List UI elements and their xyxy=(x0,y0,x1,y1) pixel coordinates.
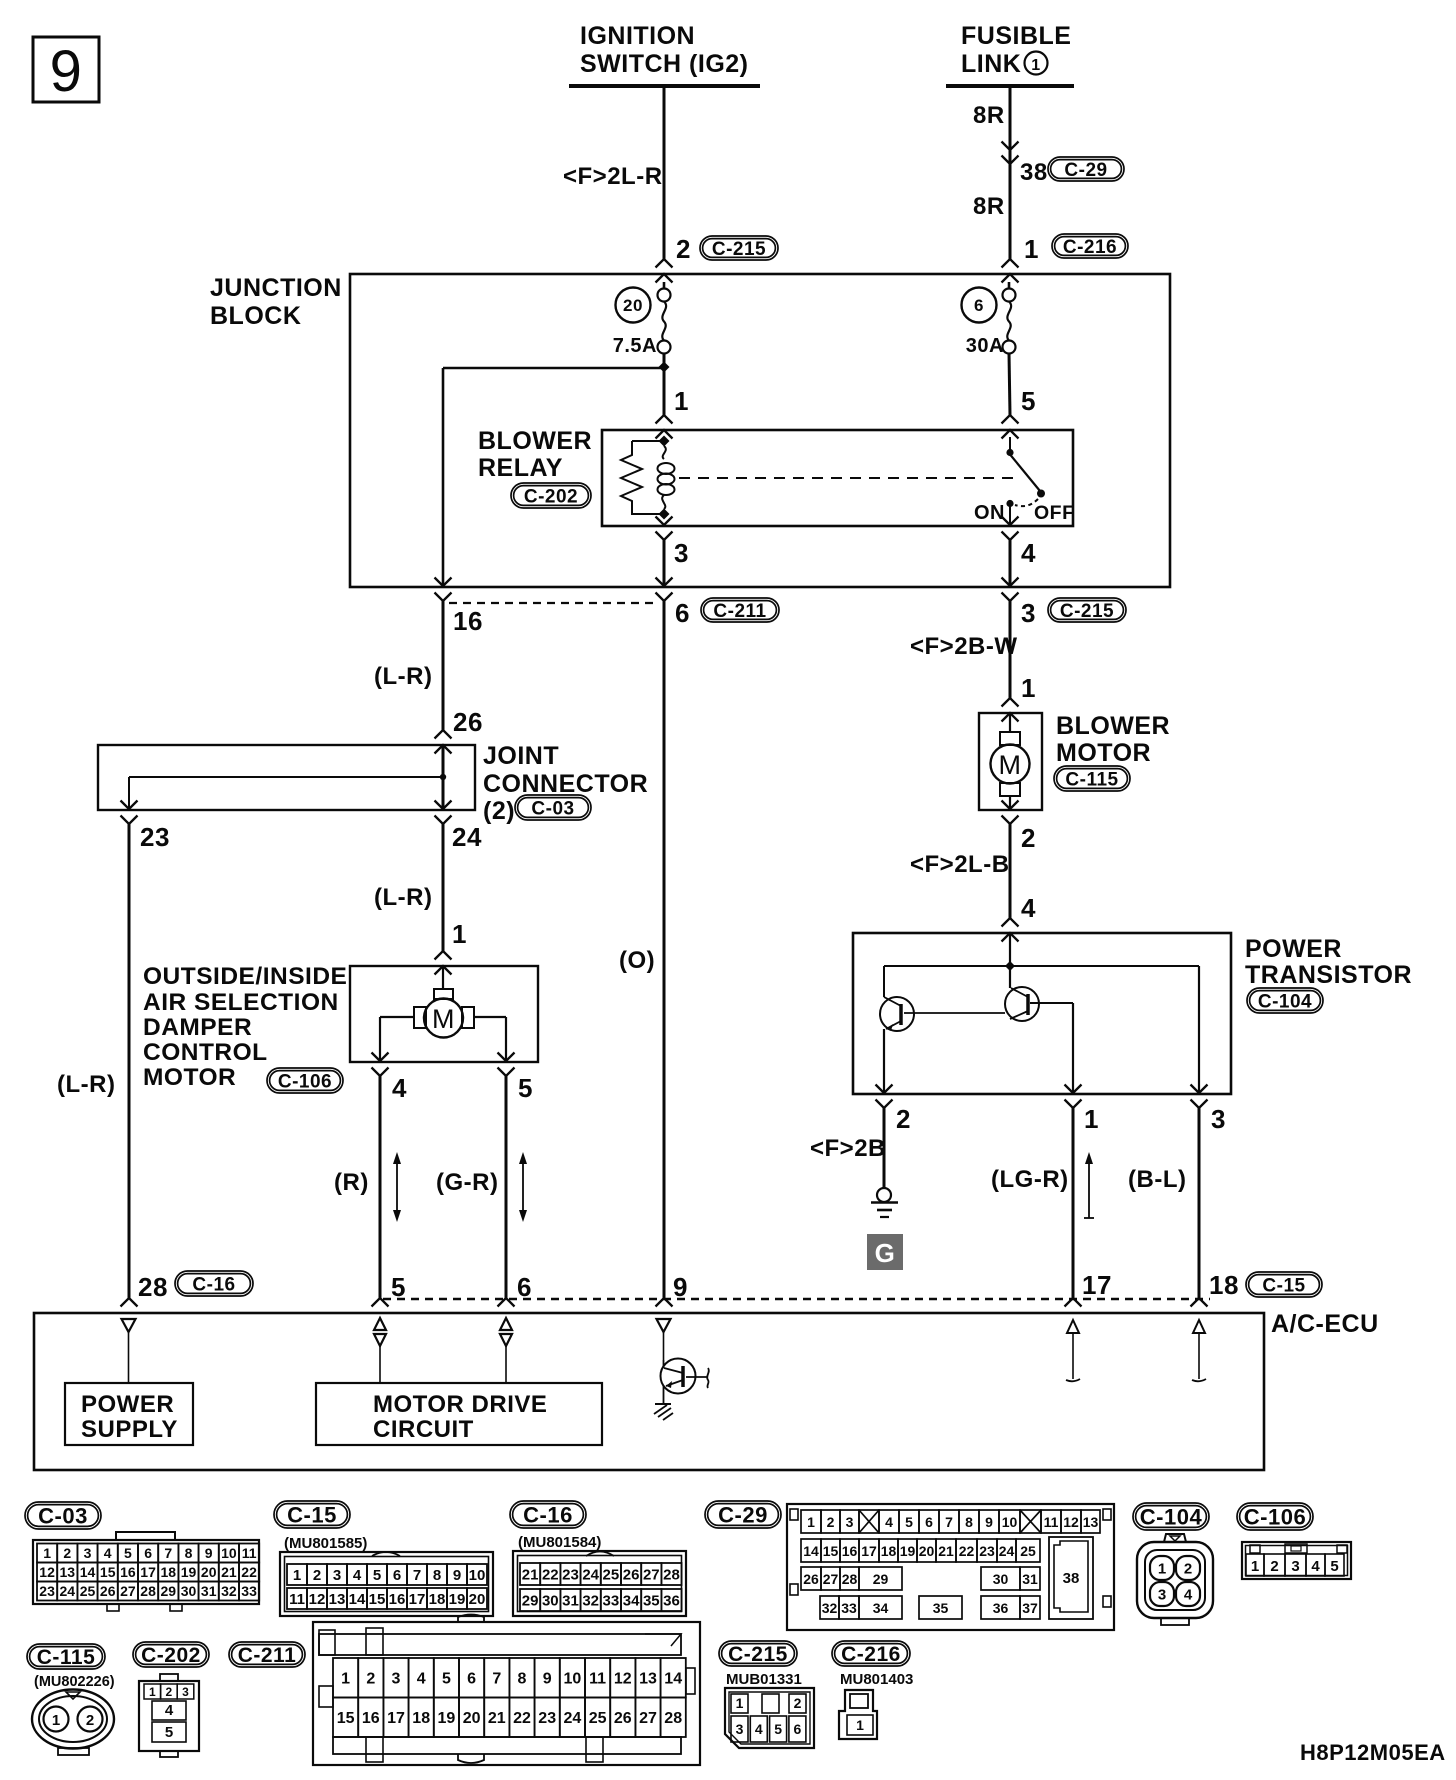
svg-text:TRANSISTOR: TRANSISTOR xyxy=(1245,961,1412,989)
svg-text:12: 12 xyxy=(309,1591,326,1608)
svg-text:5: 5 xyxy=(165,1724,173,1741)
MOTOR DRIVE CIRCUIT block xyxy=(316,1383,602,1445)
ECU input triangle pin 9 xyxy=(657,1319,671,1360)
legend connector C-03 label xyxy=(25,1502,101,1529)
svg-text:5: 5 xyxy=(373,1567,381,1584)
ECU internal transistor Q3 xyxy=(661,1359,709,1405)
fuse 6 30A xyxy=(962,282,1016,357)
svg-text:23: 23 xyxy=(39,1583,55,1599)
wire damper pin 4 to ECU pin 5, code (R) xyxy=(334,1076,380,1298)
svg-text:(LG-R): (LG-R) xyxy=(991,1166,1069,1193)
svg-text:21: 21 xyxy=(938,1543,954,1559)
svg-text:MOTOR DRIVE: MOTOR DRIVE xyxy=(373,1391,547,1418)
svg-text:C-115: C-115 xyxy=(37,1646,96,1669)
terminal ECU pin 17 xyxy=(1065,1298,1082,1307)
svg-text:C-215: C-215 xyxy=(712,239,766,260)
svg-text:9: 9 xyxy=(453,1567,461,1584)
legend connector C-106 pin grid xyxy=(1242,1542,1351,1579)
svg-text:19: 19 xyxy=(181,1564,197,1580)
svg-text:24: 24 xyxy=(60,1583,76,1599)
svg-text:29: 29 xyxy=(522,1592,539,1609)
svg-text:1: 1 xyxy=(293,1567,301,1584)
legend connector C-106 label xyxy=(1237,1503,1313,1530)
svg-text:1: 1 xyxy=(149,1685,156,1699)
legend connector C-211 label xyxy=(229,1642,305,1667)
svg-text:36: 36 xyxy=(993,1600,1009,1616)
connector C-211 pin 6 label xyxy=(675,598,779,628)
svg-text:M: M xyxy=(999,750,1022,780)
svg-text:16: 16 xyxy=(120,1564,136,1580)
svg-text:33: 33 xyxy=(241,1583,257,1599)
svg-text:14: 14 xyxy=(803,1543,819,1559)
svg-text:37: 37 xyxy=(1022,1600,1038,1616)
svg-text:18: 18 xyxy=(161,1564,177,1580)
svg-text:14: 14 xyxy=(349,1591,366,1608)
connector C-215 pin 3 label xyxy=(1021,598,1126,628)
legend connector C-15 pin grid xyxy=(280,1552,493,1616)
legend connector C-15 label xyxy=(274,1501,367,1552)
svg-text:5: 5 xyxy=(774,1721,782,1737)
ECU bidirectional triangles pin 6 xyxy=(500,1318,512,1383)
svg-text:13: 13 xyxy=(1083,1514,1099,1530)
transistor Q1 output xyxy=(880,997,1005,1031)
legend connector C-29 pin grid xyxy=(787,1504,1114,1630)
terminal blower motor pin 1 xyxy=(1002,698,1019,722)
svg-text:2: 2 xyxy=(313,1567,321,1584)
svg-text:G: G xyxy=(875,1238,896,1268)
connector C-215 pin 2 label xyxy=(676,234,778,264)
svg-text:2: 2 xyxy=(1270,1558,1278,1575)
svg-text:2: 2 xyxy=(86,1712,94,1729)
svg-text:4: 4 xyxy=(885,1514,893,1530)
svg-text:3: 3 xyxy=(674,538,689,568)
terminal power transistor pin 3 xyxy=(1191,1085,1208,1109)
terminal relay pin 4 xyxy=(1002,517,1019,541)
terminal ECU pin 9 xyxy=(656,1298,673,1307)
svg-text:4: 4 xyxy=(417,1671,426,1688)
svg-text:31: 31 xyxy=(201,1583,217,1599)
svg-text:3: 3 xyxy=(846,1514,854,1530)
terminal junction block pin 16 exit xyxy=(435,578,452,602)
terminal ECU pin 18 xyxy=(1191,1298,1208,1307)
svg-text:7: 7 xyxy=(492,1671,501,1688)
svg-text:POWER: POWER xyxy=(1245,935,1342,963)
terminal power transistor pin 4 xyxy=(1002,918,1019,942)
terminal joint connector pin 23 xyxy=(121,801,138,825)
svg-text:1: 1 xyxy=(52,1712,60,1729)
svg-text:1: 1 xyxy=(736,1695,744,1711)
svg-text:26: 26 xyxy=(100,1583,116,1599)
svg-text:17: 17 xyxy=(1082,1270,1112,1300)
terminal pin 1 into junction block xyxy=(1002,259,1019,283)
svg-text:17: 17 xyxy=(140,1564,156,1580)
svg-text:JUNCTION: JUNCTION xyxy=(210,274,342,302)
svg-text:5: 5 xyxy=(1330,1558,1338,1575)
svg-text:28: 28 xyxy=(664,1710,682,1727)
svg-text:21: 21 xyxy=(221,1564,237,1580)
svg-text:1: 1 xyxy=(341,1671,350,1688)
svg-text:1: 1 xyxy=(43,1545,51,1561)
svg-text:16: 16 xyxy=(842,1543,858,1559)
svg-text:11: 11 xyxy=(242,1545,257,1561)
fuse 20 7.5A xyxy=(613,282,671,357)
svg-text:30A: 30A xyxy=(966,335,1004,357)
svg-text:SUPPLY: SUPPLY xyxy=(81,1416,178,1443)
svg-text:27: 27 xyxy=(120,1583,136,1599)
svg-text:5: 5 xyxy=(442,1671,451,1688)
svg-text:30: 30 xyxy=(993,1571,1009,1587)
legend connector C-29 label xyxy=(705,1501,781,1528)
svg-text:3: 3 xyxy=(1158,1587,1166,1604)
svg-text:1: 1 xyxy=(1024,234,1039,264)
relay BLOWER RELAY C-202 box xyxy=(478,427,1073,526)
svg-text:C-202: C-202 xyxy=(141,1644,201,1667)
svg-text:24: 24 xyxy=(452,822,482,852)
svg-text:4: 4 xyxy=(392,1073,407,1103)
svg-text:20: 20 xyxy=(463,1710,481,1727)
legend connector C-115 label xyxy=(27,1644,115,1690)
legend connector C-216 face xyxy=(839,1690,877,1739)
svg-text:C-16: C-16 xyxy=(192,1274,235,1295)
svg-text:14: 14 xyxy=(80,1564,96,1580)
svg-text:1: 1 xyxy=(856,1717,864,1733)
legend connector C-104 label xyxy=(1133,1503,1209,1530)
svg-text:23: 23 xyxy=(562,1566,579,1583)
svg-text:4: 4 xyxy=(353,1567,362,1584)
svg-text:(MU802226): (MU802226) xyxy=(34,1674,115,1690)
svg-text:3: 3 xyxy=(84,1545,92,1561)
svg-text:6: 6 xyxy=(675,598,690,628)
svg-text:25: 25 xyxy=(1020,1543,1036,1559)
svg-text:ON: ON xyxy=(974,502,1005,524)
wire fuse6 to relay switch pin 5 xyxy=(1009,353,1010,415)
svg-text:4: 4 xyxy=(1311,1558,1320,1575)
svg-text:31: 31 xyxy=(1022,1571,1038,1587)
svg-text:C-03: C-03 xyxy=(38,1503,88,1528)
svg-text:C-15: C-15 xyxy=(1262,1275,1305,1296)
legend connector C-216 label xyxy=(832,1641,913,1688)
node fuse20 output junction xyxy=(659,353,670,415)
svg-text:15: 15 xyxy=(100,1564,116,1580)
svg-text:2: 2 xyxy=(896,1104,911,1134)
svg-text:C-106: C-106 xyxy=(1244,1504,1306,1529)
svg-text:28: 28 xyxy=(663,1566,680,1583)
svg-text:32: 32 xyxy=(582,1592,599,1609)
svg-text:(L-R): (L-R) xyxy=(57,1071,115,1098)
svg-text:2: 2 xyxy=(827,1514,835,1530)
svg-text:19: 19 xyxy=(438,1710,456,1727)
terminal ECU pin 28 xyxy=(121,1298,138,1307)
ECU bidirectional triangles pin 5 xyxy=(374,1318,386,1383)
connector C-216 pin 1 label xyxy=(1024,234,1128,264)
svg-text:21: 21 xyxy=(522,1566,539,1583)
svg-text:17: 17 xyxy=(409,1591,426,1608)
svg-text:9: 9 xyxy=(50,39,83,104)
svg-text:3: 3 xyxy=(1021,598,1036,628)
svg-text:<F>2L-R: <F>2L-R xyxy=(563,163,663,190)
ECU pin 18 label xyxy=(1209,1270,1322,1300)
svg-text:JOINT: JOINT xyxy=(483,742,559,770)
relay coil xyxy=(658,436,675,520)
svg-text:C-03: C-03 xyxy=(531,798,574,819)
svg-text:MUB01331: MUB01331 xyxy=(726,1671,802,1688)
svg-text:8: 8 xyxy=(518,1671,527,1688)
terminal ECU pin 5 xyxy=(372,1298,389,1307)
svg-text:26: 26 xyxy=(623,1566,640,1583)
svg-text:20: 20 xyxy=(623,296,643,315)
svg-text:25: 25 xyxy=(80,1583,96,1599)
wire pin 24 to damper motor pin 1, code (L-R) xyxy=(374,824,443,951)
svg-text:<F>2B-W: <F>2B-W xyxy=(910,633,1018,660)
svg-text:1: 1 xyxy=(1158,1561,1166,1578)
svg-text:2: 2 xyxy=(366,1671,375,1688)
svg-text:27: 27 xyxy=(823,1571,839,1587)
svg-text:8: 8 xyxy=(185,1545,193,1561)
damper motor M symbol xyxy=(414,966,474,1038)
legend connector C-211 face xyxy=(313,1615,700,1766)
terminal pin 2 into junction block xyxy=(656,259,673,283)
svg-text:(R): (R) xyxy=(334,1169,369,1196)
svg-text:C-29: C-29 xyxy=(718,1502,768,1527)
svg-text:4: 4 xyxy=(1184,1587,1193,1604)
svg-text:32: 32 xyxy=(822,1600,838,1616)
svg-text:28: 28 xyxy=(138,1272,168,1302)
svg-text:6: 6 xyxy=(974,296,984,315)
svg-text:25: 25 xyxy=(603,1566,620,1583)
svg-text:18: 18 xyxy=(429,1591,446,1608)
ground reference G box xyxy=(867,1234,903,1270)
terminal damper motor pin 1 xyxy=(435,951,452,975)
svg-text:7: 7 xyxy=(413,1567,421,1584)
svg-text:(B-L): (B-L) xyxy=(1128,1166,1186,1193)
terminal joint connector pin 26 xyxy=(435,730,452,754)
svg-text:8R: 8R xyxy=(973,102,1005,129)
wire damper motor left brush to pin 4 xyxy=(380,1017,414,1061)
terminal relay pin 5 xyxy=(1002,415,1019,439)
svg-text:C-29: C-29 xyxy=(1064,160,1107,181)
source IGNITION SWITCH (IG2) xyxy=(569,22,760,86)
svg-text:(O): (O) xyxy=(619,947,655,974)
svg-text:10: 10 xyxy=(1002,1514,1018,1530)
legend connector C-202 face xyxy=(139,1674,199,1757)
svg-text:8R: 8R xyxy=(973,193,1005,220)
svg-text:12: 12 xyxy=(39,1564,55,1580)
svg-text:(G-R): (G-R) xyxy=(436,1169,498,1196)
svg-text:9: 9 xyxy=(673,1272,688,1302)
svg-text:6: 6 xyxy=(925,1514,933,1530)
svg-text:CONTROL: CONTROL xyxy=(143,1039,268,1066)
connector C-29 pin 38 crossing xyxy=(1002,142,1125,187)
legend connector C-16 pin grid xyxy=(513,1551,686,1616)
source FUSIBLE LINK 1 xyxy=(946,22,1074,86)
transistor Q2 driver xyxy=(1005,987,1073,1021)
wire junction block pin 3 to blower motor, code 2B-W xyxy=(910,601,1018,698)
blower motor M symbol xyxy=(991,713,1030,809)
wire pin 16 to joint connector, code (L-R) xyxy=(374,601,443,730)
svg-text:13: 13 xyxy=(329,1591,346,1608)
wire collector rail right to pin 3 xyxy=(1198,966,1200,1093)
svg-text:5: 5 xyxy=(124,1545,132,1561)
svg-text:2: 2 xyxy=(1021,823,1036,853)
ECU transistor ground hatch xyxy=(654,1404,673,1420)
terminal damper motor pin 5 xyxy=(498,1053,515,1077)
relay linkage dashed line xyxy=(679,477,1016,479)
svg-text:3: 3 xyxy=(1291,1558,1299,1575)
svg-text:34: 34 xyxy=(873,1600,889,1616)
wire junction block branch left to pin 16 xyxy=(443,368,664,586)
svg-text:35: 35 xyxy=(643,1592,660,1609)
svg-text:SWITCH (IG2): SWITCH (IG2) xyxy=(580,50,749,78)
svg-text:36: 36 xyxy=(663,1592,680,1609)
ECU input triangle pin 28 xyxy=(122,1319,136,1383)
svg-text:C-215: C-215 xyxy=(1060,601,1114,622)
svg-text:9: 9 xyxy=(205,1545,213,1561)
terminal relay pin 3 xyxy=(656,517,673,541)
terminal damper motor pin 4 xyxy=(372,1053,389,1077)
svg-text:4: 4 xyxy=(1021,893,1036,923)
svg-text:8: 8 xyxy=(433,1567,441,1584)
svg-text:24: 24 xyxy=(564,1710,582,1727)
svg-text:MU801403: MU801403 xyxy=(840,1671,913,1688)
svg-text:22: 22 xyxy=(241,1564,257,1580)
legend connector C-202 label xyxy=(133,1642,209,1667)
svg-text:17: 17 xyxy=(387,1710,405,1727)
wire pin 23 down left side, code (L-R) xyxy=(57,824,129,1298)
svg-text:29: 29 xyxy=(161,1583,177,1599)
svg-text:C-106: C-106 xyxy=(278,1071,332,1092)
svg-text:<F>2B: <F>2B xyxy=(810,1135,886,1162)
svg-text:18: 18 xyxy=(1209,1270,1239,1300)
svg-text:34: 34 xyxy=(623,1592,640,1609)
wire through joint connector xyxy=(442,745,445,810)
power transistor box C-104 xyxy=(853,933,1412,1094)
relay switch contacts ON OFF xyxy=(974,437,1075,525)
svg-text:DAMPER: DAMPER xyxy=(143,1014,252,1041)
svg-text:OFF: OFF xyxy=(1034,502,1075,524)
svg-text:LINK: LINK xyxy=(961,50,1021,78)
wire transistor base to pin 1 xyxy=(1072,1003,1074,1093)
direction arrow up middle xyxy=(1084,1152,1094,1218)
svg-text:A/C-ECU: A/C-ECU xyxy=(1271,1310,1379,1338)
joint connector internal bus xyxy=(129,774,446,810)
svg-text:2: 2 xyxy=(1184,1561,1192,1578)
svg-text:2: 2 xyxy=(794,1695,802,1711)
legend connector C-16 label xyxy=(510,1501,601,1551)
svg-text:4: 4 xyxy=(104,1545,112,1561)
svg-text:11: 11 xyxy=(289,1591,305,1608)
terminal joint connector pin 24 xyxy=(435,801,452,825)
wire damper motor right brush to pin 5 xyxy=(474,1017,506,1061)
power transistor internal collector rail xyxy=(884,933,1199,988)
page number 9 box xyxy=(33,37,99,104)
svg-text:5: 5 xyxy=(518,1073,533,1103)
wire pin 2 to ground, code 2B xyxy=(810,1108,886,1188)
wire pin 1 to ECU pin 17, code (LG-R) xyxy=(991,1108,1073,1298)
svg-text:3: 3 xyxy=(333,1567,341,1584)
terminal relay pin 1 xyxy=(656,415,673,439)
svg-text:RELAY: RELAY xyxy=(478,454,563,482)
svg-text:BLOWER: BLOWER xyxy=(478,427,592,455)
svg-text:15: 15 xyxy=(823,1543,839,1559)
svg-text:MOTOR: MOTOR xyxy=(143,1064,236,1091)
svg-text:9: 9 xyxy=(985,1514,993,1530)
ground symbol xyxy=(871,1188,898,1217)
svg-text:3: 3 xyxy=(1211,1104,1226,1134)
wire relay pin 3 to junction block bottom xyxy=(663,540,666,586)
svg-text:5: 5 xyxy=(1021,386,1036,416)
relay coil shunt resistor xyxy=(621,441,664,514)
svg-text:35: 35 xyxy=(933,1600,949,1616)
ECU output arrow pin 18 xyxy=(1192,1320,1206,1381)
svg-text:26: 26 xyxy=(614,1710,632,1727)
svg-text:6: 6 xyxy=(517,1272,532,1302)
svg-text:3: 3 xyxy=(392,1671,401,1688)
legend connector C-215 label xyxy=(719,1641,802,1688)
svg-text:H8P12M05EA: H8P12M05EA xyxy=(1300,1740,1446,1765)
svg-text:1: 1 xyxy=(452,919,467,949)
svg-text:CIRCUIT: CIRCUIT xyxy=(373,1416,474,1443)
svg-text:AIR SELECTION: AIR SELECTION xyxy=(143,989,339,1016)
svg-text:C-211: C-211 xyxy=(238,1644,297,1667)
svg-text:14: 14 xyxy=(664,1671,682,1688)
outside/inside air selection damper control motor box C-106 xyxy=(143,963,538,1093)
svg-text:6: 6 xyxy=(467,1671,476,1688)
svg-text:30: 30 xyxy=(542,1592,559,1609)
svg-text:BLOWER: BLOWER xyxy=(1056,712,1170,740)
svg-text:MOTOR: MOTOR xyxy=(1056,739,1151,767)
svg-text:33: 33 xyxy=(841,1600,857,1616)
svg-text:4: 4 xyxy=(755,1721,763,1737)
svg-text:17: 17 xyxy=(861,1543,877,1559)
svg-text:15: 15 xyxy=(369,1591,386,1608)
svg-text:18: 18 xyxy=(881,1543,897,1559)
terminal power transistor pin 2 xyxy=(876,1085,893,1109)
svg-text:1: 1 xyxy=(1084,1104,1099,1134)
direction arrow double headed right xyxy=(519,1152,527,1222)
svg-text:4: 4 xyxy=(165,1702,174,1719)
terminal ECU pin 6 xyxy=(498,1298,515,1307)
svg-text:10: 10 xyxy=(564,1671,582,1688)
svg-text:1: 1 xyxy=(807,1514,815,1530)
svg-text:BLOCK: BLOCK xyxy=(210,302,301,330)
wire fusible link to junction block pin 1, code 8R xyxy=(973,86,1010,260)
svg-text:6: 6 xyxy=(794,1721,802,1737)
svg-text:3: 3 xyxy=(182,1685,189,1699)
wire ignition IG2 to junction block pin 2 xyxy=(563,86,664,260)
svg-text:C-211: C-211 xyxy=(713,601,766,622)
svg-text:32: 32 xyxy=(221,1583,237,1599)
POWER SUPPLY block xyxy=(65,1383,193,1445)
svg-text:7.5A: 7.5A xyxy=(613,335,657,357)
svg-text:16: 16 xyxy=(389,1591,406,1608)
svg-text:M: M xyxy=(432,1004,455,1034)
legend connector C-03 pin grid xyxy=(33,1532,259,1611)
wire blower motor to power transistor, code 2L-B xyxy=(910,824,1010,918)
terminal blower motor pin 2 xyxy=(1002,801,1019,825)
svg-text:30: 30 xyxy=(181,1583,197,1599)
svg-text:C-16: C-16 xyxy=(523,1502,573,1527)
A/C-ECU box xyxy=(34,1310,1379,1470)
svg-text:(L-R): (L-R) xyxy=(374,884,432,911)
svg-text:C-216: C-216 xyxy=(841,1643,901,1666)
svg-text:26: 26 xyxy=(453,707,483,737)
svg-text:20: 20 xyxy=(201,1564,217,1580)
svg-text:8: 8 xyxy=(965,1514,973,1530)
svg-text:12: 12 xyxy=(1063,1514,1079,1530)
svg-text:C-215: C-215 xyxy=(728,1643,788,1666)
svg-text:22: 22 xyxy=(959,1543,975,1559)
svg-text:11: 11 xyxy=(1044,1514,1059,1530)
